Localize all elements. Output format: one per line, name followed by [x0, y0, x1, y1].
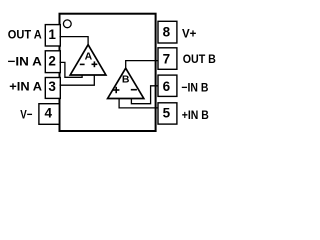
op-amp A plus input symbol	[92, 63, 98, 65]
wire +IN A: pin3 to op-amp A non-inverting input	[60, 75, 95, 86]
pin 1 box	[45, 25, 60, 46]
op-amp B minus input symbol	[131, 89, 137, 91]
svg-text:OUT A: OUT A	[8, 27, 42, 41]
svg-text:V+: V+	[182, 27, 196, 41]
svg-text:6: 6	[163, 79, 171, 94]
svg-text:−IN B: −IN B	[181, 81, 208, 95]
svg-text:+IN A: +IN A	[9, 79, 42, 93]
wire OUT B: op-amp B output to pin7	[126, 61, 158, 68]
svg-text:5: 5	[163, 105, 171, 120]
pin 6 box	[158, 75, 177, 96]
svg-text:4: 4	[45, 106, 53, 121]
svg-text:3: 3	[48, 79, 56, 94]
svg-text:2: 2	[48, 54, 56, 69]
pin 3 box	[45, 78, 60, 99]
svg-text:B: B	[122, 74, 130, 86]
pin 4 box (wider)	[39, 104, 59, 125]
op-amp A triangle	[70, 45, 106, 75]
op-amp B plus input symbol	[113, 89, 119, 91]
wire +IN B: op-amp B non-inverting input to pin5	[119, 98, 158, 108]
svg-text:V−: V−	[20, 107, 32, 121]
op-amp A minus input symbol	[80, 63, 85, 65]
wire OUT A: pin1 to op-amp A output	[60, 37, 89, 46]
wire -IN B: op-amp B inverting input to pin6	[131, 86, 158, 104]
pin 2 box	[45, 51, 60, 73]
pin 1 indicator circle	[63, 20, 71, 28]
pin 5 box	[158, 103, 177, 124]
pin 7 box	[158, 48, 177, 70]
svg-text:8: 8	[163, 25, 171, 40]
IC package body U1	[60, 14, 156, 131]
pin 8 box	[158, 21, 177, 43]
op-amp B triangle	[108, 68, 144, 98]
wire -IN A: pin2 to op-amp A inverting input	[60, 62, 83, 77]
svg-text:7: 7	[163, 52, 171, 67]
svg-text:−IN A: −IN A	[8, 54, 43, 68]
svg-text:+IN B: +IN B	[182, 108, 209, 122]
svg-text:A: A	[85, 51, 93, 63]
svg-text:1: 1	[48, 27, 56, 42]
svg-text:OUT B: OUT B	[183, 52, 216, 66]
